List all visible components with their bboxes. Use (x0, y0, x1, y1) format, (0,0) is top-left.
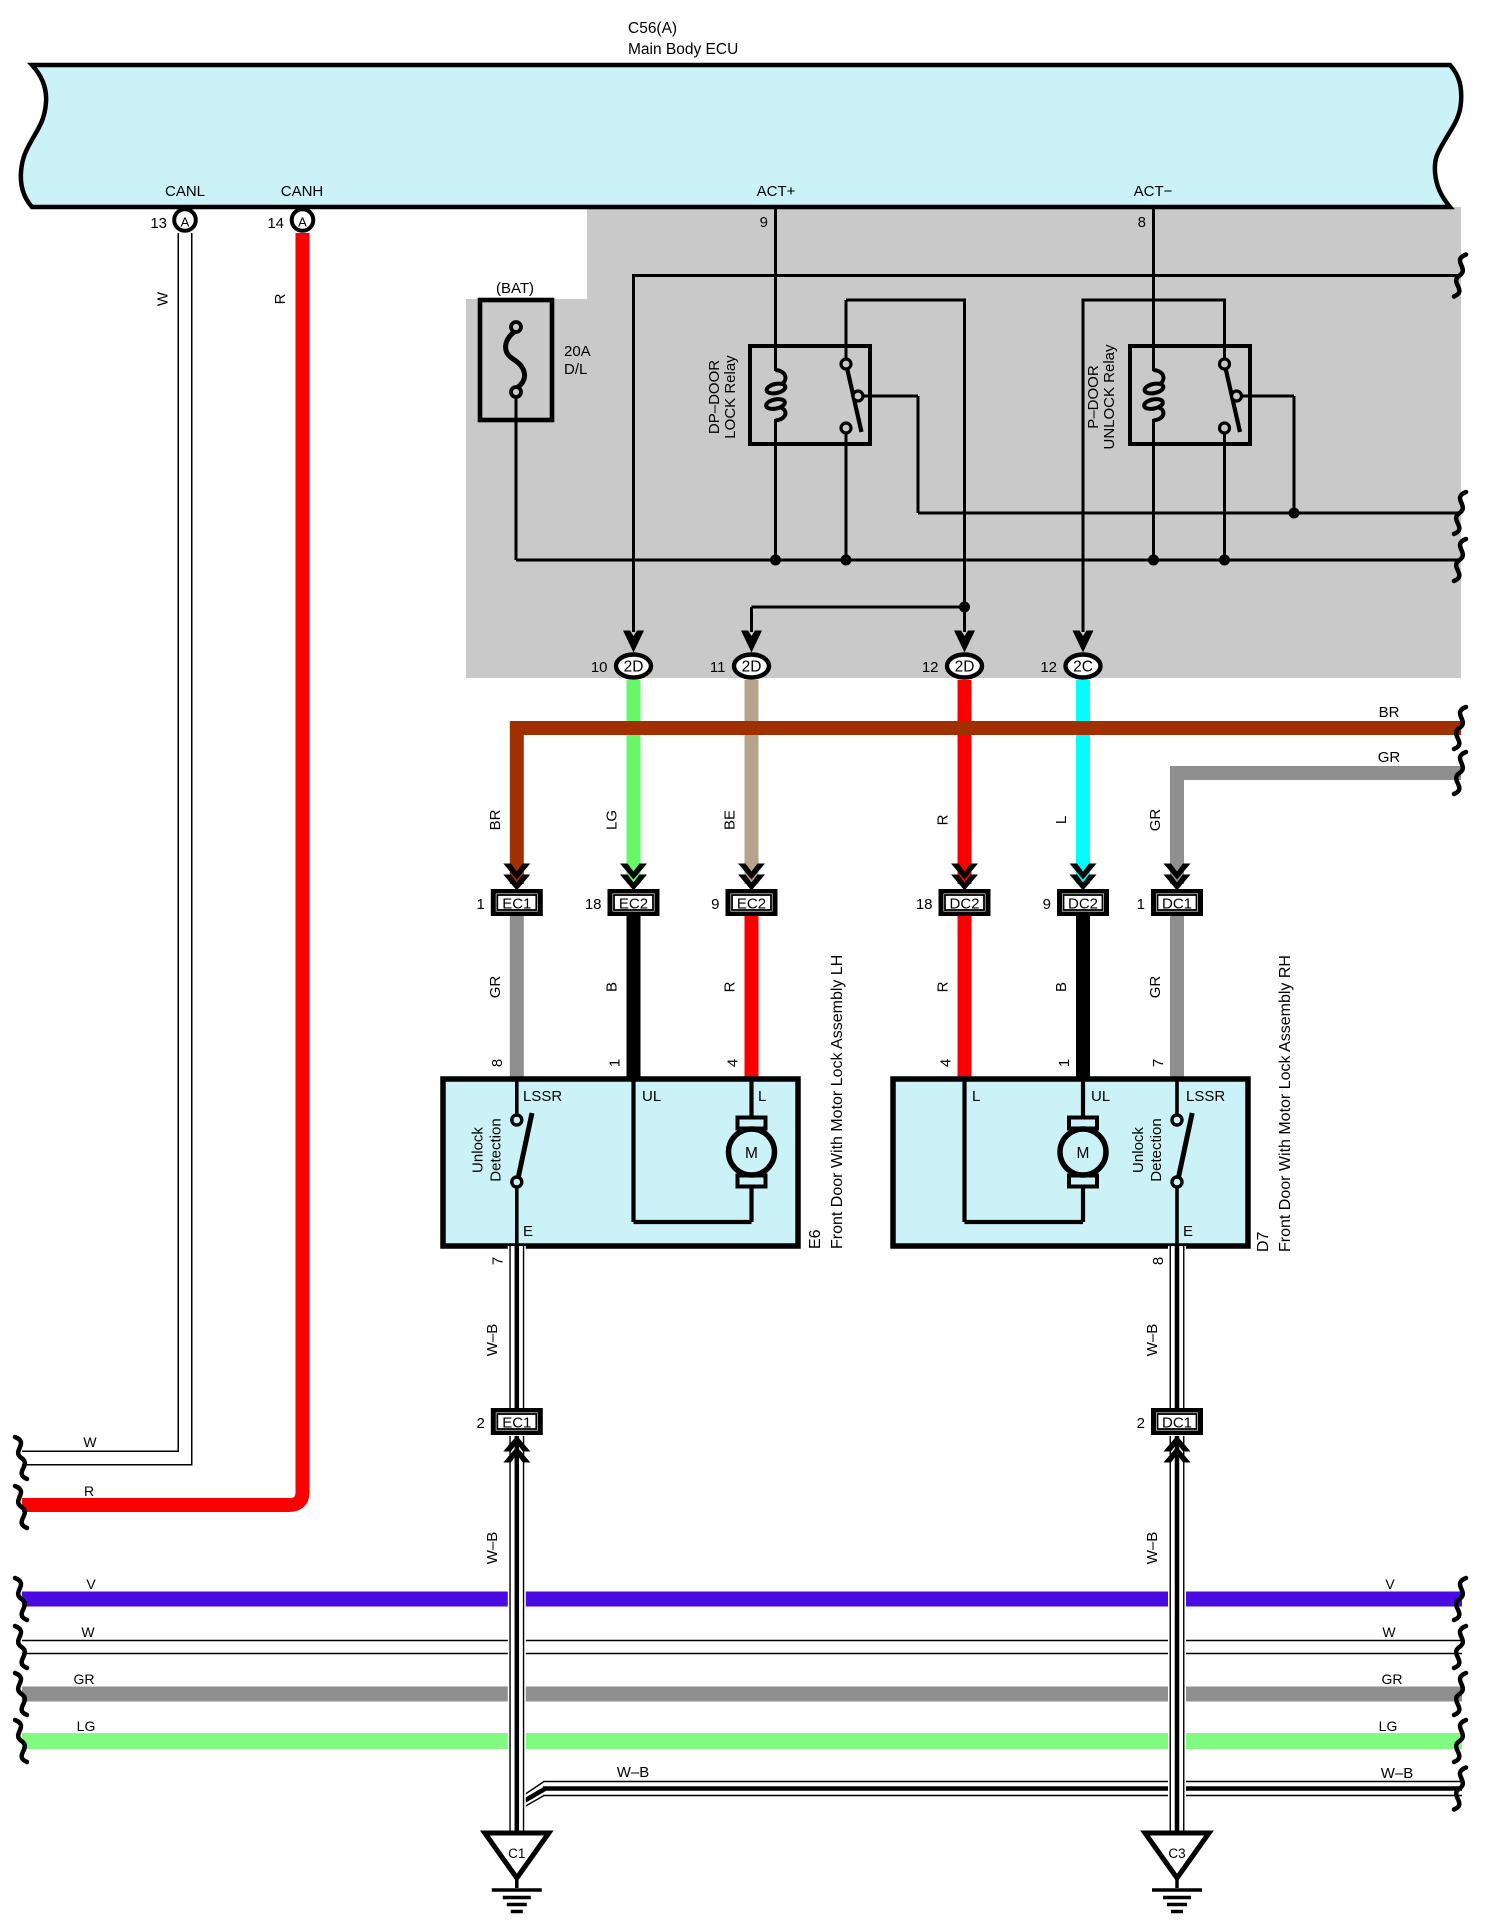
wire GR DC1 to RH LSSR (1170, 916, 1184, 1079)
pin 13 connector A circle (174, 209, 196, 231)
svg-text:LG: LG (77, 1718, 96, 1734)
connector oval 11 2D (734, 655, 769, 678)
wire GR EC1 to LH LSSR (510, 916, 524, 1079)
connector DC2 pin 18 pass-through arrows (951, 864, 978, 880)
svg-text:D/L: D/L (564, 361, 587, 378)
svg-text:GR: GR (1378, 749, 1401, 766)
svg-text:UL: UL (1091, 1088, 1110, 1105)
svg-text:R: R (722, 981, 739, 992)
W-B diagonal join at C1 (521, 1782, 544, 1798)
wire W (CANL) from pin 13 (22, 233, 192, 1465)
connector box DC1 pin 2 (1151, 1408, 1203, 1435)
wire R EC2 to LH L (745, 916, 759, 1079)
wire L from 12 2C (1076, 680, 1090, 884)
LH L wire to motor (749, 1079, 753, 1124)
RH UL wire to motor (1081, 1079, 1085, 1124)
relay1 switch arm (847, 368, 862, 432)
bus LG light green (22, 1733, 1462, 1749)
connector box EC1 pin 2 (491, 1408, 543, 1435)
fuse element (511, 322, 521, 332)
svg-text:GR: GR (1147, 809, 1164, 832)
svg-text:9: 9 (760, 214, 768, 231)
svg-text:LG: LG (1379, 1718, 1398, 1734)
svg-text:1: 1 (476, 896, 484, 913)
wire ACT+ pin9 to relay1 coil (774, 207, 777, 371)
svg-text:W–B: W–B (1381, 1765, 1414, 1782)
svg-text:Main Body ECU: Main Body ECU (628, 41, 738, 58)
svg-text:Unlock: Unlock (470, 1127, 487, 1173)
svg-text:13: 13 (150, 215, 167, 232)
wire bus A drop to connector 10 2D (632, 276, 635, 633)
bus B horizontal y=513 (918, 512, 1461, 515)
break squiggle bus B (1454, 492, 1466, 534)
bus C horizontal y=560 (516, 559, 1461, 562)
svg-text:2C: 2C (1073, 659, 1093, 676)
svg-text:Unlock: Unlock (1130, 1127, 1147, 1173)
break squiggle bus C (1454, 539, 1466, 581)
svg-text:1: 1 (1056, 1059, 1073, 1067)
wire R from 12 2D (958, 680, 972, 884)
break squiggle W-B (1454, 1768, 1466, 1810)
wire ACT- pin8 to relay2 coil (1152, 207, 1155, 371)
LH motor M (738, 1118, 766, 1129)
wire BR bus with corner to EC1 (517, 728, 1461, 884)
svg-text:W–B: W–B (484, 1532, 501, 1565)
svg-text:4: 4 (938, 1059, 955, 1067)
svg-text:A: A (298, 215, 307, 230)
svg-text:GR: GR (1382, 1671, 1403, 1687)
svg-text:Detection: Detection (1148, 1118, 1165, 1181)
wire branch y=607 to connector 11 2D (752, 606, 965, 609)
svg-text:DC2: DC2 (949, 896, 979, 913)
svg-text:4: 4 (725, 1059, 742, 1067)
junction sw2/busC (1219, 555, 1230, 566)
svg-text:D7: D7 (1255, 1231, 1272, 1252)
wire drop x=1083 to connector 12 2C (1082, 299, 1085, 633)
wire BE from 11 2D (745, 680, 759, 884)
bus break squiggles right (1454, 1578, 1466, 1620)
ground C1 (485, 1833, 549, 1878)
relay DP-DOOR LOCK Relay box (750, 346, 870, 444)
W-B wire EC1 bottom section (508, 1436, 526, 1833)
connector oval 12 2C (1066, 655, 1101, 678)
break squiggle GR (1454, 752, 1466, 794)
svg-text:10: 10 (591, 659, 608, 676)
RH motor M (1069, 1118, 1097, 1129)
connector EC2 pin 18 pass-through arrows (620, 864, 647, 880)
svg-text:18: 18 (916, 896, 933, 913)
wire B EC2 to LH UL (627, 916, 641, 1079)
svg-text:P–DOOR: P–DOOR (1085, 365, 1102, 429)
svg-text:12: 12 (922, 659, 939, 676)
svg-text:C1: C1 (508, 1846, 525, 1861)
arrow into connector 11 2D (741, 631, 762, 653)
svg-text:GR: GR (487, 976, 504, 999)
svg-text:9: 9 (1043, 896, 1051, 913)
svg-text:12: 12 (1040, 659, 1057, 676)
svg-text:W–B: W–B (1144, 1324, 1161, 1357)
svg-text:R: R (84, 1483, 94, 1499)
svg-text:DC2: DC2 (1068, 896, 1098, 913)
wire relay1 coil bottom to bus C (774, 419, 777, 560)
LH unlock detection switch (515, 1079, 519, 1115)
shaded relay/fuse region of Main Body ECU internals (466, 207, 1461, 678)
svg-text:C3: C3 (1168, 1846, 1185, 1861)
break squiggle W left (15, 1437, 27, 1479)
svg-text:R: R (272, 293, 289, 304)
break squiggle BR (1454, 707, 1466, 749)
RH unlock detection switch (1175, 1079, 1179, 1115)
svg-text:8: 8 (1150, 1257, 1167, 1265)
svg-text:L: L (758, 1088, 766, 1105)
RH L wire to motor (962, 1079, 966, 1222)
svg-text:8: 8 (1138, 214, 1146, 231)
fuse 20A D/L box (480, 300, 552, 420)
wire GR bus with corner to DC1 (1177, 773, 1461, 884)
bus GR gray (22, 1687, 1462, 1702)
svg-text:EC2: EC2 (619, 896, 648, 913)
connector EC1 pin 1 pass-through arrows (503, 864, 530, 880)
svg-text:W–B: W–B (484, 1324, 501, 1357)
svg-text:EC1: EC1 (502, 896, 531, 913)
arrow into connector 12 2C (1073, 631, 1094, 653)
LH UL wire to motor (631, 1079, 635, 1222)
svg-text:11: 11 (710, 659, 726, 676)
relay1 switch contacts (841, 359, 851, 369)
svg-text:9: 9 (711, 896, 719, 913)
svg-text:7: 7 (490, 1257, 507, 1265)
svg-text:DP–DOOR: DP–DOOR (706, 360, 723, 434)
break squiggle bus A (1454, 255, 1466, 297)
svg-text:E: E (523, 1223, 533, 1240)
wire B DC2 to RH UL (1076, 916, 1090, 1079)
Front Door With Motor Lock Assembly LH box E6 (443, 1079, 798, 1246)
svg-text:GR: GR (1147, 976, 1164, 999)
svg-text:8: 8 (489, 1059, 506, 1067)
W-B ground bus horizontal (543, 1781, 1462, 1783)
bus V violet (22, 1592, 1462, 1607)
connector box EC2 (608, 889, 660, 916)
svg-text:L: L (972, 1088, 980, 1105)
connector oval 12 2D (947, 655, 982, 678)
pin 14 connector A circle (292, 209, 314, 231)
arrow into connector 12 2D (954, 631, 975, 653)
svg-text:BR: BR (1379, 704, 1400, 721)
svg-text:2D: 2D (624, 659, 644, 676)
svg-text:W: W (81, 1624, 95, 1640)
relay1 coil (776, 370, 786, 385)
relay2 switch contacts (1220, 359, 1230, 369)
svg-text:GR: GR (74, 1671, 95, 1687)
wire relay1 middle contact to bus B (862, 395, 918, 398)
junction at (964.5,607) (959, 602, 970, 613)
svg-text:BR: BR (487, 809, 504, 830)
svg-text:UNLOCK Relay: UNLOCK Relay (1101, 344, 1118, 450)
connector oval 10 2D (616, 655, 651, 678)
wire y=300 relay1 top contact to 12 2D drop (846, 299, 965, 302)
svg-text:A: A (181, 215, 190, 230)
relay P-DOOR UNLOCK Relay box (1130, 346, 1250, 444)
svg-text:Detection: Detection (488, 1118, 505, 1181)
wire relay2 coil bottom to bus C (1152, 419, 1155, 560)
bus break squiggles left (15, 1578, 27, 1620)
wire relay1 switch bottom contact to bus C (845, 433, 848, 560)
svg-text:LSSR: LSSR (523, 1088, 562, 1105)
arrow into connector 10 2D (623, 631, 644, 653)
svg-text:DC1: DC1 (1162, 896, 1192, 913)
bus W white (22, 1640, 1462, 1642)
svg-text:E: E (1183, 1223, 1193, 1240)
svg-text:M: M (1077, 1145, 1090, 1162)
svg-text:C56(A): C56(A) (628, 20, 677, 37)
svg-text:2D: 2D (955, 659, 975, 676)
connector box DC2 (1057, 889, 1109, 916)
svg-text:CANL: CANL (165, 183, 205, 200)
wire fuse to bus C (515, 398, 518, 560)
svg-text:14: 14 (267, 215, 284, 232)
svg-text:W: W (155, 291, 172, 306)
connector box EC1 (491, 889, 543, 916)
wire relay2 middle contact to bus B (1241, 395, 1294, 398)
svg-text:EC2: EC2 (737, 896, 766, 913)
svg-text:W: W (1382, 1624, 1396, 1640)
svg-text:18: 18 (585, 896, 602, 913)
svg-text:W: W (83, 1434, 97, 1450)
Front Door With Motor Lock Assembly RH box D7 (893, 1079, 1248, 1246)
ground C3 (1145, 1833, 1209, 1878)
wire LG from 10 2D (627, 680, 641, 884)
svg-text:LOCK Relay: LOCK Relay (722, 355, 739, 439)
svg-text:2: 2 (1137, 1415, 1145, 1432)
relay2 coil (1154, 370, 1164, 385)
svg-text:LG: LG (604, 810, 621, 830)
svg-text:1: 1 (1137, 896, 1145, 913)
connector box DC1 (1151, 889, 1203, 916)
svg-text:LSSR: LSSR (1186, 1088, 1225, 1105)
svg-text:BE: BE (722, 810, 739, 830)
svg-text:UL: UL (642, 1088, 661, 1105)
svg-text:Front Door With Motor Lock Ass: Front Door With Motor Lock Assembly RH (1277, 955, 1294, 1252)
junction coil2/busC (1148, 555, 1159, 566)
break squiggle R left (15, 1486, 27, 1528)
connector EC2 pin 9 pass-through arrows (738, 864, 765, 880)
svg-text:ACT−: ACT− (1134, 183, 1173, 200)
svg-text:W–B: W–B (1144, 1532, 1161, 1565)
ECU C56(A) Main Body ECU box (21, 65, 1461, 207)
svg-text:EC1: EC1 (502, 1415, 531, 1432)
svg-text:V: V (86, 1576, 96, 1592)
svg-text:20A: 20A (564, 343, 591, 360)
wire R (CANH) from pin 14 (22, 233, 303, 1505)
connector DC2 pin 9 pass-through arrows (1070, 864, 1097, 880)
junction coil1/busC (770, 555, 781, 566)
svg-text:W–B: W–B (617, 1764, 650, 1781)
svg-text:7: 7 (1150, 1059, 1167, 1067)
relay2 switch arm (1226, 368, 1241, 432)
junction at (1294,513) (1289, 508, 1300, 519)
svg-text:B: B (1053, 982, 1070, 992)
svg-text:DC1: DC1 (1162, 1415, 1192, 1432)
wire y=300 relay2 top contact to 12 2C drop (1083, 299, 1225, 302)
W-B wire EC1 top section (508, 1246, 526, 1408)
svg-text:R: R (935, 814, 952, 825)
wire relay2 switch bottom contact to bus C (1223, 433, 1226, 560)
svg-text:1: 1 (607, 1059, 624, 1067)
svg-text:M: M (745, 1145, 758, 1162)
wire R DC2 to RH L (958, 916, 972, 1079)
svg-text:(BAT): (BAT) (496, 280, 534, 297)
svg-text:L: L (1053, 816, 1070, 824)
svg-text:CANH: CANH (281, 183, 324, 200)
svg-text:2D: 2D (742, 659, 762, 676)
connector DC1 pin 1 pass-through arrows (1164, 864, 1191, 880)
svg-text:E6: E6 (807, 1229, 824, 1249)
svg-text:ACT+: ACT+ (757, 183, 796, 200)
svg-text:2: 2 (476, 1415, 484, 1432)
junction sw1/busC (841, 555, 852, 566)
connector box DC2 (939, 889, 991, 916)
svg-text:R: R (935, 981, 952, 992)
svg-text:V: V (1385, 1576, 1395, 1592)
wire drop x=964.5 to connector 12 2D (963, 299, 966, 633)
connector box EC2 (726, 889, 778, 916)
wire relay2 switch top contact riser (1223, 299, 1226, 360)
bus A horizontal y=276 (632, 274, 1461, 277)
W-B wire DC1 top section (1168, 1246, 1186, 1408)
W-B wire DC1 bottom section (1168, 1436, 1186, 1833)
wire relay1 switch top contact riser (845, 300, 848, 359)
svg-text:Front Door With Motor Lock Ass: Front Door With Motor Lock Assembly LH (829, 955, 846, 1249)
svg-text:B: B (604, 982, 621, 992)
